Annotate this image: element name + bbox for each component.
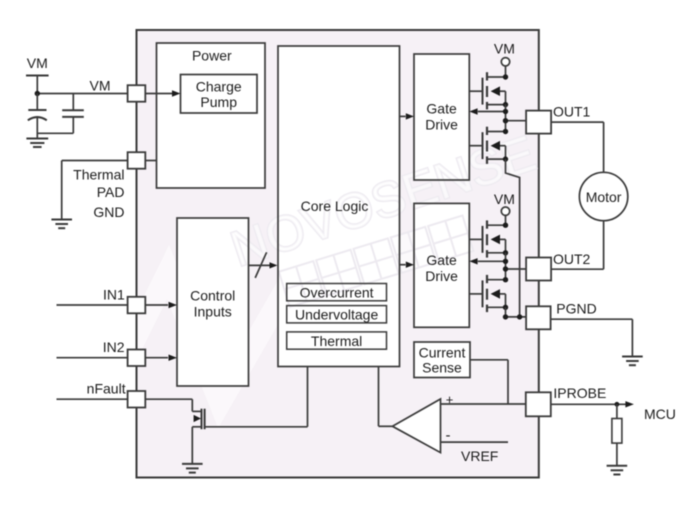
svg-text:Core Logic: Core Logic — [301, 198, 369, 214]
wire IN1 — [57, 302, 178, 308]
IC outer boundary box fill — [137, 30, 539, 478]
block Control Inputs — [177, 218, 249, 386]
pin PGND — [526, 306, 551, 329]
block Core Logic — [278, 46, 400, 367]
svg-text:Undervoltage: Undervoltage — [295, 307, 378, 323]
pin IN1 — [128, 297, 146, 314]
svg-text:OUT2: OUT2 — [553, 251, 591, 267]
block Gate Drive 1 — [414, 54, 469, 180]
svg-text:Drive: Drive — [425, 116, 458, 132]
pin OUT1 — [526, 111, 551, 134]
resistor R1 — [612, 404, 622, 466]
node Q1 source — [503, 102, 508, 107]
node resistor tap — [615, 402, 620, 407]
node PGND junction 2 — [517, 314, 522, 319]
node VM junction — [35, 91, 40, 96]
wire Control Inputs to Core Logic bus arrow — [249, 262, 278, 268]
watermark chinese glyph blocks — [279, 216, 473, 308]
svg-text:Motor: Motor — [586, 189, 622, 205]
svg-text:Thermal: Thermal — [311, 333, 362, 349]
node Q4 drain — [503, 277, 508, 282]
block Overcurrent — [287, 284, 387, 301]
svg-text:Drive: Drive — [425, 268, 458, 284]
block Current Sense — [414, 342, 470, 378]
pin OUT2 — [526, 258, 551, 281]
svg-text:OUT1: OUT1 — [553, 104, 591, 120]
svg-text:IN2: IN2 — [103, 339, 125, 355]
capacitor C2 — [37, 94, 84, 134]
pin VM — [128, 85, 146, 102]
wire VREF to comparator minus input — [441, 441, 509, 443]
svg-text:VM: VM — [494, 191, 515, 207]
wire Core Logic to Gate Drive 1 arrow — [400, 113, 415, 119]
wire OUT2 tap — [506, 268, 527, 270]
wire Current Sense to comparator plus input — [470, 360, 508, 404]
bus width slash — [255, 252, 266, 278]
motor M — [579, 172, 627, 220]
ground Thermal PAD — [51, 220, 72, 229]
svg-text:Inputs: Inputs — [194, 303, 232, 319]
wire IPROBE to MCU arrow — [551, 401, 634, 407]
svg-text:IPROBE: IPROBE — [553, 385, 606, 401]
svg-text:+: + — [446, 392, 454, 407]
transistor Q2 low-side A — [469, 127, 505, 164]
svg-text:Gate: Gate — [426, 101, 457, 117]
watermark logo N mark — [100, 272, 288, 410]
wire Core Logic to Gate Drive 2 arrow — [400, 262, 415, 268]
svg-text:IN1: IN1 — [103, 286, 125, 302]
svg-text:GND: GND — [93, 204, 124, 220]
svg-text:nFault: nFault — [87, 380, 126, 396]
block Thermal — [287, 332, 387, 349]
node feedback tap B — [503, 259, 508, 264]
block Charge Pump — [181, 75, 258, 114]
VM terminal half-bridge 2 — [501, 207, 509, 225]
node Q3 source — [503, 250, 508, 255]
wire Q4 source to PGND node — [505, 307, 507, 317]
node Q1 drain — [503, 74, 508, 79]
wire IPROBE to comparator plus input — [441, 403, 526, 405]
wire Thermal PAD to ground — [62, 161, 128, 220]
svg-text:VREF: VREF — [461, 448, 498, 464]
pin nFault — [128, 391, 146, 408]
ground under Q5 — [182, 464, 203, 473]
block Gate Drive 2 — [414, 203, 469, 327]
ground under R1 — [607, 466, 628, 475]
svg-text:MCU: MCU — [644, 406, 676, 422]
svg-text:VM: VM — [494, 41, 515, 57]
IC outer boundary border — [137, 30, 539, 478]
node Q2 drain — [503, 129, 508, 134]
wire VM node to VM pin — [37, 93, 127, 95]
block Undervoltage — [287, 306, 387, 323]
pin IPROBE — [526, 392, 551, 416]
wire switch node column A — [505, 105, 507, 132]
ground under C1 — [26, 139, 48, 148]
svg-text:Pump: Pump — [200, 94, 237, 110]
svg-text:Gate: Gate — [426, 252, 457, 268]
ground PGND — [622, 357, 643, 366]
transistor Q4 low-side B — [469, 275, 505, 312]
wire VM pin to Charge Pump with arrow — [145, 90, 180, 96]
block white fills underlay — [157, 43, 471, 386]
wire Motor to OUT2 — [551, 221, 604, 270]
node Q4 source — [503, 305, 508, 310]
wire Q5 gate to Core Logic — [205, 367, 308, 427]
wire feedback to Gate Drive 2 arrow — [469, 258, 505, 264]
wire nFault — [57, 398, 193, 400]
svg-text:Overcurrent: Overcurrent — [300, 285, 374, 301]
svg-text:PAD: PAD — [97, 184, 125, 200]
wire PGND node to PGND pin — [506, 316, 527, 318]
pin IN2 — [128, 350, 146, 367]
svg-text:Control: Control — [190, 287, 235, 303]
wire switch node column B — [505, 253, 507, 280]
node feedback tap A — [503, 109, 508, 114]
wire bridge A source to PGND rail — [506, 159, 520, 317]
pin Thermal PAD — [128, 152, 146, 169]
wire comparator output to Core Logic — [379, 367, 393, 427]
op-amp U1 current comparator — [393, 399, 441, 453]
svg-text:VM: VM — [27, 55, 48, 71]
node OUT2 tap — [503, 266, 508, 271]
wire feedback to Gate Drive 1 arrow — [469, 108, 505, 114]
node OUT1 tap — [503, 118, 508, 123]
node Q2 source — [503, 156, 508, 161]
svg-text:Thermal: Thermal — [73, 167, 124, 183]
svg-text:Power: Power — [192, 48, 232, 64]
watermark NOVOSENSE text — [224, 125, 542, 278]
block Power — [157, 43, 266, 188]
svg-text:PGND: PGND — [556, 300, 596, 316]
wire IN2 — [57, 355, 178, 361]
VM supply terminal bar — [26, 76, 49, 94]
wire Thermal pin to Power block — [145, 160, 156, 162]
node PGND junction 1 — [503, 314, 508, 319]
VM terminal half-bridge 1 — [501, 58, 509, 77]
svg-text:Sense: Sense — [422, 360, 462, 376]
transistor Q5 nFault open-drain — [192, 399, 204, 464]
svg-text:Current: Current — [419, 344, 466, 360]
svg-text:-: - — [446, 427, 451, 444]
transistor Q3 high-side B — [469, 220, 505, 257]
node Q3 drain — [503, 223, 508, 228]
transistor Q1 high-side A — [469, 72, 505, 109]
wire OUT1 to Motor — [551, 122, 604, 172]
svg-text:VM: VM — [90, 77, 111, 93]
wire OUT1 tap — [506, 120, 527, 122]
capacitor C1 — [28, 94, 47, 139]
wire PGND to ground — [551, 319, 632, 356]
svg-text:Charge: Charge — [196, 79, 242, 95]
